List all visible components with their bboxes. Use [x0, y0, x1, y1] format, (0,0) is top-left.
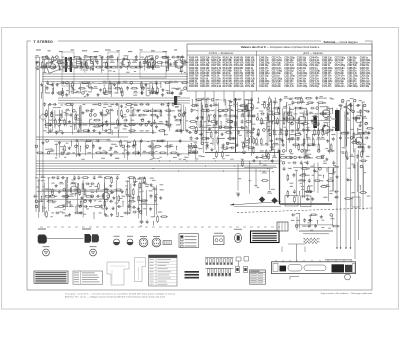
svg-text:R135 2,2k: R135 2,2k: [211, 86, 221, 88]
svg-text:C137 47n: C137 47n: [297, 59, 307, 62]
svg-text:C145 22n: C145 22n: [297, 80, 307, 83]
svg-text:Page suivante: côté soudures —: Page suivante: côté soudures — Next page…: [321, 292, 373, 295]
svg-text:R134 470: R134 470: [211, 83, 221, 86]
svg-text:R167 470: R167 470: [245, 75, 255, 78]
svg-text:C146 4,7n: C146 4,7n: [297, 83, 307, 86]
svg-text:R107 220: R107 220: [189, 76, 199, 78]
svg-text:Valeurs des R et C — Compone: Valeurs des R et C — Component values of…: [241, 45, 320, 49]
svg-text:R164 1k: R164 1k: [245, 67, 254, 70]
svg-text:Trait gras: circuit H.T. — ten: Trait gras: circuit H.T. — tensions mesu…: [65, 293, 176, 296]
svg-text:C174 1n: C174 1n: [335, 62, 344, 65]
svg-text:R156 470: R156 470: [234, 77, 244, 80]
svg-text:R111 560: R111 560: [189, 86, 199, 88]
svg-text:R117 4,7k: R117 4,7k: [200, 69, 210, 72]
svg-text:C143 6,8n: C143 6,8n: [297, 75, 307, 78]
svg-text:R126 33k: R126 33k: [211, 63, 221, 65]
svg-text:R114 1,2k: R114 1,2k: [200, 62, 210, 65]
svg-text:R154 15k: R154 15k: [234, 72, 244, 75]
svg-text:C184 33p: C184 33p: [347, 56, 357, 59]
svg-text:R147 10k: R147 10k: [223, 85, 233, 88]
svg-text:C164 220p: C164 220p: [322, 67, 333, 70]
svg-text:C190 4,7n: C190 4,7n: [347, 72, 357, 75]
svg-text:C167 22n: C167 22n: [322, 76, 332, 78]
svg-text:C203 10μ: C203 10μ: [360, 76, 370, 78]
svg-text:R145 470: R145 470: [223, 80, 233, 83]
svg-text:R141 68k: R141 68k: [223, 69, 233, 72]
svg-text:C144 15n: C144 15n: [297, 77, 307, 80]
svg-text:C204 47n: C204 47n: [360, 77, 370, 80]
svg-text:C149 2,2n: C149 2,2n: [309, 59, 319, 62]
svg-text:C171 47n: C171 47n: [322, 85, 332, 88]
svg-text:R142 1k: R142 1k: [223, 72, 232, 75]
svg-text:C195 100μ: C195 100μ: [347, 86, 358, 88]
svg-text:C147 120p: C147 120p: [297, 85, 308, 88]
svg-text:C186 220p: C186 220p: [347, 63, 358, 65]
svg-text:C124 120p: C124 120p: [284, 56, 295, 59]
svg-text:R148 33k: R148 33k: [234, 56, 244, 59]
svg-text:R139 4,7k: R139 4,7k: [223, 64, 233, 67]
svg-text:R102 10k: R102 10k: [189, 63, 199, 65]
svg-text:C162 33p: C162 33p: [322, 63, 332, 65]
svg-text:C131 220p: C131 220p: [284, 76, 295, 78]
svg-text:C112 4,7n: C112 4,7n: [272, 56, 282, 59]
svg-text:C182 47n: C182 47n: [335, 83, 345, 86]
svg-text:C207 33p: C207 33p: [360, 86, 370, 88]
svg-text:C102 120p: C102 120p: [259, 63, 270, 65]
svg-text:C159 10μ: C159 10μ: [309, 86, 319, 88]
svg-text:C201 4,7n: C201 4,7n: [360, 69, 370, 72]
svg-text:R128 4,7k: R128 4,7k: [211, 67, 221, 70]
svg-text:R100 470: R100 470: [189, 56, 199, 59]
svg-text:R138 100: R138 100: [223, 63, 233, 65]
svg-text:C119 1n: C119 1n: [272, 76, 281, 78]
svg-text:C148 47n: C148 47n: [309, 56, 319, 59]
svg-text:R143 15k: R143 15k: [223, 75, 233, 78]
svg-text:R124 10k: R124 10k: [211, 56, 221, 59]
svg-text:C157 4,7n: C157 4,7n: [309, 80, 319, 83]
svg-text:R123 470: R123 470: [200, 85, 210, 88]
svg-text:R159 1,2k: R159 1,2k: [234, 86, 244, 88]
svg-text:T STEREO: T STEREO: [34, 40, 54, 44]
svg-text:C134 22n: C134 22n: [284, 83, 294, 86]
svg-text:R162 220: R162 220: [245, 63, 255, 65]
svg-text:C194 2,2n: C194 2,2n: [347, 83, 357, 86]
svg-text:C142 220p: C142 220p: [297, 72, 308, 75]
svg-text:C138 2,2n: C138 2,2n: [297, 63, 307, 65]
svg-text:R150 4,7k: R150 4,7k: [234, 62, 244, 65]
svg-text:R106 4,7k: R106 4,7k: [189, 72, 199, 75]
svg-text:R155 560: R155 560: [234, 76, 244, 78]
svg-text:C191 120p: C191 120p: [347, 76, 358, 78]
svg-text:R146 2,2k: R146 2,2k: [223, 83, 233, 86]
svg-text:R149 100: R149 100: [234, 59, 244, 62]
svg-text:C115 47n: C115 47n: [272, 64, 282, 67]
svg-text:C179 4,7n: C179 4,7n: [335, 75, 345, 78]
svg-text:Bold line: H.T. circuit — volt: Bold line: H.T. circuit — voltages measu…: [65, 295, 166, 298]
svg-text:μF/pF — Capacités: μF/pF — Capacités: [303, 52, 324, 55]
svg-text:C104 47n: C104 47n: [259, 67, 269, 70]
svg-text:C183 2,2n: C183 2,2n: [335, 86, 345, 88]
svg-text:C126 47n: C126 47n: [284, 62, 294, 65]
svg-text:C123 22n: C123 22n: [272, 86, 282, 88]
svg-text:C101 4,7n: C101 4,7n: [259, 59, 269, 62]
svg-text:R144 560: R144 560: [223, 77, 233, 80]
svg-text:C150 100μ: C150 100μ: [309, 63, 320, 65]
svg-text:C193 47n: C193 47n: [347, 80, 357, 83]
svg-text:C141 1n: C141 1n: [297, 69, 306, 72]
svg-text:R104 33k: R104 33k: [189, 67, 199, 70]
svg-text:Ω Ohms — Résistances: Ω Ohms — Résistances: [209, 52, 234, 55]
svg-text:C155 15n: C155 15n: [309, 76, 319, 78]
svg-text:C198 6,8n: C198 6,8n: [360, 63, 370, 65]
svg-text:Schéma — Circuit diagram: Schéma — Circuit diagram: [324, 40, 359, 44]
svg-text:R161 4,7k: R161 4,7k: [245, 59, 255, 62]
svg-text:C107 33p: C107 33p: [259, 76, 269, 78]
svg-text:C168 4,7n: C168 4,7n: [322, 77, 332, 80]
svg-text:C114 10μ: C114 10μ: [272, 62, 282, 65]
svg-text:R171 33k: R171 33k: [245, 86, 255, 88]
svg-text:C111 15n: C111 15n: [259, 86, 269, 88]
svg-text:C154 6,8n: C154 6,8n: [309, 72, 319, 75]
svg-text:R140 220: R140 220: [223, 67, 233, 70]
svg-text:C135 4,7n: C135 4,7n: [284, 85, 294, 88]
svg-text:C140 33p: C140 33p: [297, 67, 307, 70]
svg-text:R131 1k: R131 1k: [211, 76, 220, 78]
svg-text:R119 68k: R119 68k: [200, 76, 210, 78]
